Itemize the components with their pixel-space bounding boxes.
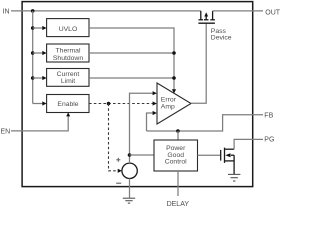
block Power Good Control [154,140,198,171]
svg-text:IN: IN [3,9,10,16]
svg-text:Shutdown: Shutdown [53,55,83,62]
svg-text:Control: Control [165,159,187,166]
svg-text:EN: EN [1,129,11,136]
svg-text:OUT: OUT [265,9,280,16]
wire bus to current limit [33,77,43,79]
svg-text:Error: Error [161,96,177,103]
svg-text:DELAY: DELAY [167,201,190,206]
node FB to power good [176,129,180,133]
wire dashed down to reference [109,104,118,171]
wire UVLO output to right bus [89,28,174,90]
wire enable dashed to error amp [89,103,153,105]
wire power good to DELAY pin [177,171,179,196]
chip boundary border [22,2,253,187]
wire pass drain to OUT [213,10,263,12]
wire power good to PG transistor gate [198,154,221,156]
wire reference up to amp input [130,93,153,163]
wire reference to power good control [130,154,154,156]
block UVLO [47,19,89,37]
svg-text:Limit: Limit [61,78,75,85]
ground (PG transistor) [228,174,240,181]
node right bus thermal [172,51,176,55]
wire reference to ground [129,178,131,198]
svg-text:Device: Device [211,35,232,42]
transistor PG open-drain [221,148,234,175]
block Enable [47,95,89,113]
svg-text:Current: Current [57,71,80,78]
wire bus to enable [33,103,43,105]
op-amp error amplifier [157,83,191,124]
wire bus to thermal shutdown [33,52,43,54]
wire thermal output [89,52,174,54]
arrow into amp top slope [172,89,176,93]
wire PG drain to PG pin [234,139,263,149]
wire FB into chip [147,115,264,131]
node bus-UVLO [31,26,35,30]
wire FB feedback to amp input [147,113,153,131]
svg-text:PG: PG [264,137,274,144]
svg-text:FB: FB [264,112,273,119]
reference current source circle [122,163,137,178]
node reference-PGC branch [128,153,132,157]
PG body arrow [225,153,230,157]
wire FB branch to power good control [177,131,179,140]
wire amp output to pass gate [191,23,206,103]
wire IN to pass device source [11,10,201,12]
pass device body arrow [204,12,208,16]
label plus [116,158,120,162]
node bus-current [31,76,35,80]
block Current Limit [47,69,89,87]
wire bus to UVLO [33,27,43,29]
node right bus current [172,76,176,80]
pass device transistor [198,11,215,23]
svg-text:Enable: Enable [57,101,78,108]
svg-text:UVLO: UVLO [59,26,78,33]
node dashed junction [107,102,111,106]
wire EN to enable block [11,116,68,131]
block Thermal Shutdown [47,44,89,62]
wire left bus vertical [32,11,34,104]
node bus-thermal [31,51,35,55]
wire current limit output [89,77,174,79]
svg-text:Amp: Amp [161,104,175,111]
svg-text:Thermal: Thermal [56,48,81,55]
node IN junction [31,9,35,13]
label minus [116,182,121,184]
ground (reference) [123,198,135,203]
